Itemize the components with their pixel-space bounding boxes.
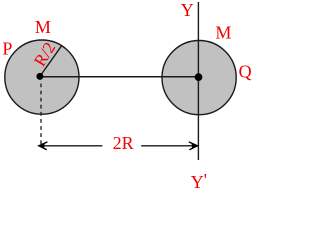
dimension line right segment <box>141 145 198 147</box>
svg-text:Y: Y <box>181 0 194 20</box>
svg-text:Q: Q <box>239 62 252 82</box>
svg-text:M: M <box>35 17 51 37</box>
disc Q (right circle) <box>162 41 236 115</box>
arrowhead right <box>189 142 198 150</box>
axis Y-Y' vertical line <box>197 2 199 160</box>
arrowhead left <box>39 142 48 150</box>
dashed projection line <box>40 84 42 145</box>
svg-text:Y': Y' <box>191 170 207 192</box>
node: right center dot <box>195 73 203 81</box>
disc P (left circle) <box>5 40 79 114</box>
wire: horizontal line joining centers <box>40 76 199 78</box>
svg-text:2R: 2R <box>113 133 134 153</box>
svg-text:M: M <box>215 23 231 43</box>
radius line R/2 <box>40 46 61 76</box>
svg-text:P: P <box>2 38 12 58</box>
node: left center dot <box>36 73 43 80</box>
dimension line left segment <box>39 145 102 147</box>
